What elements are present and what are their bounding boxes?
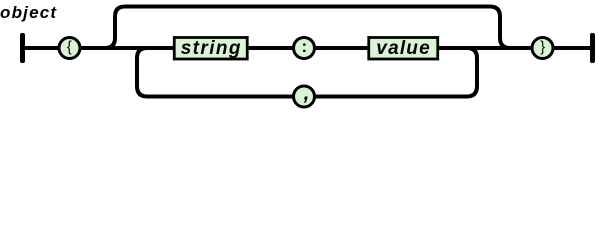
svg-text::: :	[301, 37, 307, 56]
box value	[369, 38, 438, 60]
terminal }	[532, 38, 553, 59]
terminal ,	[294, 86, 315, 107]
start terminal	[20, 33, 25, 63]
svg-text:value: value	[376, 38, 431, 59]
wire bottom loop	[137, 48, 477, 97]
end terminal	[590, 33, 595, 63]
svg-text:}: }	[540, 40, 545, 56]
svg-text:object: object	[0, 3, 57, 22]
terminal :	[294, 38, 315, 59]
svg-text:string: string	[181, 38, 242, 59]
svg-text:{: {	[67, 40, 72, 56]
terminal {	[59, 38, 80, 59]
wire top bypass	[105, 7, 510, 49]
svg-text:,: ,	[303, 83, 310, 105]
box string	[174, 38, 247, 60]
wire main line	[25, 46, 590, 50]
